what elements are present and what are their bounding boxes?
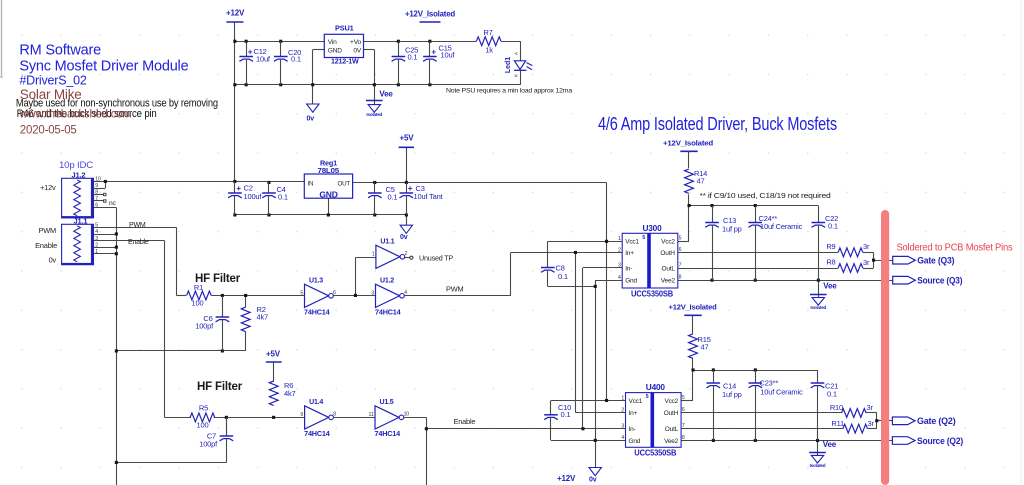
- svg-text:R7: R7: [483, 28, 492, 37]
- svg-text:0.1: 0.1: [408, 53, 418, 62]
- svg-text:7: 7: [682, 423, 685, 429]
- svg-text:5: 5: [646, 394, 649, 400]
- svg-text:GND: GND: [319, 189, 337, 199]
- svg-text:Note PSU requires a min load a: Note PSU requires a min load approx 12ma: [446, 88, 572, 95]
- svg-text:2020-05-05: 2020-05-05: [20, 125, 77, 137]
- svg-text:6: 6: [682, 407, 685, 413]
- svg-text:Isolated: Isolated: [810, 305, 826, 310]
- svg-text:Enable: Enable: [128, 239, 149, 246]
- svg-text:5: 5: [300, 290, 303, 296]
- svg-text:+5V: +5V: [266, 350, 281, 359]
- svg-text:10: 10: [404, 412, 410, 418]
- svg-text:0.1: 0.1: [388, 193, 398, 202]
- svg-text:0.1: 0.1: [828, 221, 838, 230]
- svg-text:HF Filter: HF Filter: [197, 379, 243, 393]
- svg-text:R8: R8: [826, 257, 835, 266]
- svg-text:U400: U400: [646, 383, 666, 392]
- svg-text:Gnd: Gnd: [625, 277, 637, 284]
- svg-text:10uf: 10uf: [256, 55, 271, 64]
- svg-text:4: 4: [621, 435, 624, 441]
- svg-text:100: 100: [192, 298, 204, 307]
- svg-text:OutH: OutH: [664, 410, 679, 417]
- svg-text:J1.1: J1.1: [74, 217, 88, 226]
- svg-text:PSU1: PSU1: [335, 24, 354, 33]
- svg-text:PWM: PWM: [39, 226, 57, 235]
- svg-text:1: 1: [621, 395, 624, 401]
- svg-text:U1.4: U1.4: [309, 397, 324, 406]
- svg-text:11: 11: [369, 412, 374, 418]
- svg-text:R5: R5: [199, 403, 208, 412]
- svg-text:5: 5: [95, 223, 98, 229]
- svg-text:UCC5350SB: UCC5350SB: [634, 449, 676, 458]
- svg-text:+5V: +5V: [400, 134, 415, 143]
- svg-text:0V: 0V: [353, 48, 361, 55]
- svg-text:0v: 0v: [589, 477, 597, 484]
- svg-text:Source (Q3): Source (Q3): [917, 276, 962, 286]
- svg-text:4k7: 4k7: [257, 312, 269, 321]
- svg-text:10: 10: [95, 177, 101, 183]
- svg-text:Gate (Q3): Gate (Q3): [917, 256, 954, 266]
- svg-text:3: 3: [618, 263, 621, 269]
- svg-text:IN: IN: [308, 180, 314, 187]
- svg-text:4: 4: [404, 290, 407, 296]
- svg-text:Vee2: Vee2: [661, 277, 676, 284]
- svg-text:10uf Ceramic: 10uf Ceramic: [760, 222, 803, 231]
- svg-text:** if C9/10 used, C18/19 not r: ** if C9/10 used, C18/19 not required: [700, 191, 831, 200]
- svg-text:Soldered to PCB Mosfet Pins: Soldered to PCB Mosfet Pins: [897, 243, 1013, 254]
- svg-text:Enable: Enable: [454, 417, 476, 426]
- svg-text:+12V_Isolated: +12V_Isolated: [663, 138, 714, 147]
- svg-text:8: 8: [679, 274, 682, 280]
- svg-text:OutH: OutH: [660, 250, 675, 257]
- svg-text:5: 5: [682, 395, 685, 401]
- svg-text:Gate (Q2): Gate (Q2): [917, 416, 956, 426]
- svg-text:78L05: 78L05: [318, 166, 341, 175]
- svg-text:U1.2: U1.2: [380, 276, 394, 285]
- svg-text:In-: In-: [625, 265, 632, 272]
- svg-text:+: +: [248, 48, 253, 57]
- svg-text:4k7: 4k7: [284, 389, 296, 398]
- svg-text:Vcc1: Vcc1: [625, 239, 639, 246]
- svg-text:3: 3: [95, 236, 98, 242]
- svg-text:OutL: OutL: [665, 426, 679, 433]
- svg-text:OUT: OUT: [338, 180, 351, 187]
- svg-text:Led1: Led1: [505, 57, 512, 73]
- svg-text:1: 1: [95, 249, 98, 255]
- svg-text:U300: U300: [643, 224, 663, 233]
- svg-text:PWM: PWM: [129, 222, 146, 229]
- svg-text:+12v: +12v: [40, 183, 56, 192]
- svg-text:1212-1W: 1212-1W: [331, 57, 359, 66]
- svg-text:74HC14: 74HC14: [375, 307, 402, 316]
- svg-text:+12V: +12V: [226, 9, 245, 18]
- svg-text:J1.2: J1.2: [72, 170, 86, 179]
- svg-text:1uf pp: 1uf pp: [722, 225, 742, 234]
- svg-text:3r: 3r: [863, 242, 870, 251]
- svg-text:Vee: Vee: [823, 282, 837, 291]
- svg-text:0.1: 0.1: [278, 193, 288, 202]
- svg-text:4: 4: [95, 229, 98, 235]
- svg-text:Vcc2: Vcc2: [661, 239, 675, 246]
- svg-text:74HC14: 74HC14: [304, 429, 331, 438]
- svg-text:8: 8: [682, 435, 685, 441]
- svg-text:2: 2: [405, 251, 408, 257]
- svg-text:1uf pp: 1uf pp: [722, 390, 742, 399]
- svg-text:Vin: Vin: [328, 39, 337, 46]
- svg-text:Unused TP: Unused TP: [419, 253, 453, 262]
- svg-text:7: 7: [95, 196, 98, 202]
- svg-text:+12V_Isolated: +12V_Isolated: [405, 10, 455, 19]
- svg-text:U1.1: U1.1: [380, 237, 394, 246]
- svg-text:Isolated: Isolated: [366, 112, 382, 117]
- svg-text:5: 5: [642, 235, 645, 241]
- svg-text:www.thebackshed.com: www.thebackshed.com: [19, 107, 132, 121]
- svg-text:+12V_Isolated: +12V_Isolated: [669, 302, 718, 311]
- svg-text:+: +: [408, 184, 413, 193]
- svg-text:100: 100: [197, 421, 209, 430]
- svg-text:47: 47: [701, 342, 709, 351]
- svg-text:PWM: PWM: [446, 284, 464, 293]
- svg-text:3r: 3r: [868, 419, 875, 428]
- svg-text:0.1: 0.1: [561, 410, 571, 419]
- svg-text:Vee: Vee: [379, 89, 393, 98]
- svg-text:In-: In-: [629, 426, 636, 433]
- svg-text:1: 1: [372, 251, 375, 257]
- svg-text:0.1: 0.1: [827, 389, 837, 398]
- svg-text:100uf: 100uf: [244, 192, 263, 201]
- svg-text:10uf: 10uf: [441, 51, 456, 60]
- svg-text:7: 7: [679, 262, 682, 268]
- svg-text:3r: 3r: [863, 258, 870, 267]
- svg-text:100pf: 100pf: [195, 322, 214, 331]
- svg-text:1: 1: [618, 236, 621, 242]
- svg-text:5: 5: [679, 236, 682, 242]
- svg-text:74HC14: 74HC14: [375, 429, 402, 438]
- svg-text:+12V: +12V: [557, 474, 576, 483]
- svg-text:HF Filter: HF Filter: [195, 271, 241, 285]
- svg-text:Sync Mosfet Driver Module: Sync Mosfet Driver Module: [19, 59, 188, 75]
- svg-text:4: 4: [618, 275, 621, 281]
- svg-text:10uf Tant: 10uf Tant: [414, 192, 444, 201]
- svg-text:4/6 Amp Isolated Driver, Buck: 4/6 Amp Isolated Driver, Buck Mosfets: [598, 113, 837, 134]
- svg-text:74HC14: 74HC14: [304, 307, 331, 316]
- svg-text:3: 3: [371, 290, 374, 296]
- svg-text:+Vo: +Vo: [350, 39, 361, 46]
- svg-text:In+: In+: [625, 250, 634, 257]
- svg-text:UCC5350SB: UCC5350SB: [631, 289, 673, 298]
- svg-text:Isolated: Isolated: [810, 463, 826, 468]
- svg-text:RM Software: RM Software: [19, 43, 101, 59]
- svg-text:+: +: [431, 48, 436, 57]
- svg-text:0.1: 0.1: [291, 55, 301, 64]
- svg-text:#DriverS_02: #DriverS_02: [19, 74, 87, 88]
- svg-text:Source (Q2): Source (Q2): [917, 436, 963, 446]
- svg-text:Vcc1: Vcc1: [629, 398, 643, 405]
- svg-text:Vee: Vee: [823, 440, 837, 449]
- svg-text:6: 6: [679, 247, 682, 253]
- svg-text:0v: 0v: [400, 234, 408, 241]
- svg-text:U1.5: U1.5: [380, 397, 394, 406]
- svg-text:R9: R9: [826, 242, 835, 251]
- svg-text:R10: R10: [830, 403, 843, 412]
- svg-text:R11: R11: [831, 419, 844, 428]
- svg-text:GND: GND: [328, 48, 342, 55]
- svg-text:8: 8: [333, 412, 336, 418]
- svg-text:0v: 0v: [307, 116, 315, 123]
- svg-text:2: 2: [618, 247, 621, 253]
- svg-text:Enable: Enable: [35, 241, 57, 250]
- svg-text:U1.3: U1.3: [309, 276, 323, 285]
- svg-text:Vee2: Vee2: [664, 438, 679, 445]
- svg-text:3: 3: [621, 423, 624, 429]
- svg-text:+: +: [236, 184, 241, 193]
- svg-text:6: 6: [95, 203, 98, 209]
- svg-text:nc: nc: [109, 200, 116, 207]
- svg-text:2: 2: [95, 242, 98, 248]
- svg-text:0.1: 0.1: [558, 272, 568, 281]
- svg-text:0v: 0v: [49, 256, 57, 265]
- svg-text:10p IDC: 10p IDC: [59, 160, 94, 170]
- svg-text:47: 47: [697, 177, 705, 186]
- svg-text:9: 9: [300, 412, 303, 418]
- svg-text:100pf: 100pf: [199, 440, 218, 449]
- svg-text:2: 2: [621, 407, 624, 413]
- svg-text:Gnd: Gnd: [629, 438, 641, 445]
- svg-text:3r: 3r: [867, 403, 874, 412]
- svg-text:OutL: OutL: [662, 265, 676, 272]
- svg-text:10uf Ceramic: 10uf Ceramic: [760, 387, 803, 396]
- svg-text:In+: In+: [629, 410, 638, 417]
- svg-text:6: 6: [333, 290, 336, 296]
- svg-text:Vcc2: Vcc2: [664, 398, 678, 405]
- svg-text:1k: 1k: [485, 45, 493, 54]
